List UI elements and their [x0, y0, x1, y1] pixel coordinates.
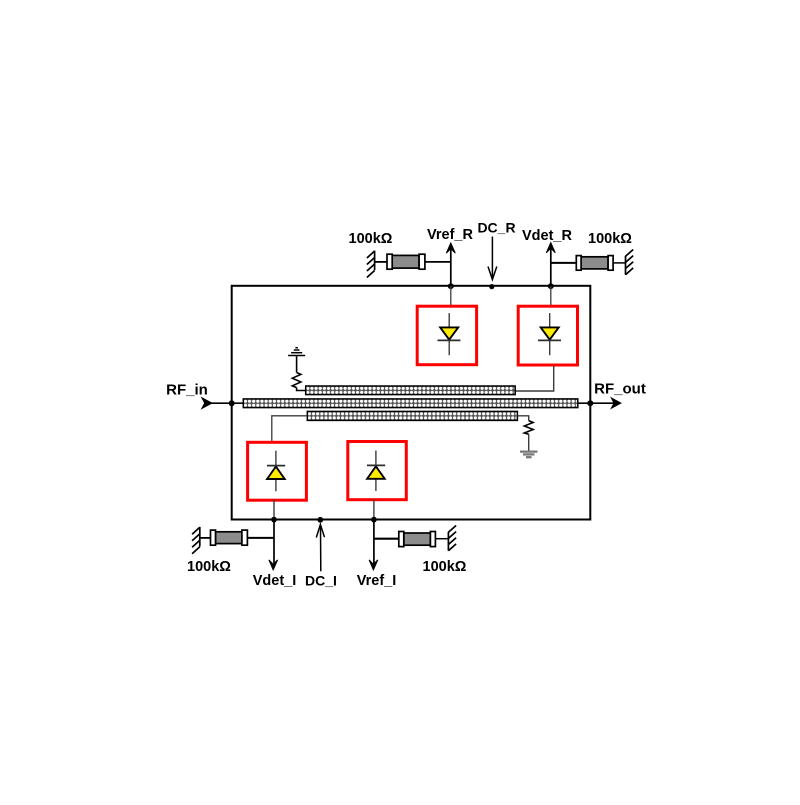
node dot Vdet_I on box bottom [271, 517, 277, 523]
svg-text:Vdet_R: Vdet_R [522, 228, 572, 244]
resistor R1 100kOhm (top-left) [387, 254, 425, 269]
detector box (red) D4 [348, 442, 407, 500]
resistor R4 100kOhm (bottom-right) [399, 532, 436, 547]
wire D2 to coupled line 1 [515, 366, 554, 392]
node dot DC_I on box bottom [317, 517, 323, 523]
ground chassis top-left [367, 251, 375, 278]
ground earth (inverted) above termination R5 [288, 348, 305, 356]
port arrow DC_R (down, open) [488, 267, 497, 280]
wire coupled line 2 to termination R6 [517, 416, 528, 421]
port arrow Vref_I (down) [369, 560, 378, 570]
wire into detector box D1 [450, 286, 452, 307]
node dot Vref_I on box bottom [371, 517, 377, 523]
wire Vref_I to R4 [374, 538, 399, 540]
diode D3 (anode up) [267, 451, 285, 492]
port arrow Vref_R (up) [446, 243, 455, 253]
ground chassis bottom-left [192, 527, 200, 554]
ground earth (gray) below R6 [520, 452, 538, 458]
wire ground to R5 [296, 356, 298, 372]
wire R6 to ground [528, 434, 530, 451]
termination resistor R5 (zigzag) [292, 373, 301, 388]
termination resistor R6 (zigzag) [524, 421, 533, 435]
detector box (red) D3 [248, 442, 307, 500]
svg-text:DC_R: DC_R [477, 220, 515, 236]
ground chassis bottom-right [448, 526, 456, 551]
wire Vdet_R to R2 [551, 262, 577, 264]
device outline box [232, 286, 591, 520]
coupled line 1 (R section) [306, 386, 516, 395]
wire Vref_I vertical [373, 520, 375, 565]
wire DC_I vertical [320, 526, 322, 571]
coupled line 2 (I section) [307, 411, 517, 420]
resistor R3 100kOhm (bottom-left) [211, 530, 248, 545]
wire Vdet_I vertical [273, 520, 275, 565]
wire ground to R1 [375, 261, 387, 263]
svg-text:RF_in: RF_in [166, 382, 208, 399]
ground chassis top-right [626, 250, 634, 275]
wire R5 to coupled line 1 [297, 388, 306, 391]
node dot Vref_R on box top [448, 283, 454, 289]
wire R2 to ground [613, 262, 625, 264]
detector box (red) D2 [518, 306, 577, 365]
svg-text:100kΩ: 100kΩ [187, 559, 231, 575]
node dot Vdet_R on box top [548, 283, 554, 289]
port arrow Vdet_R (up) [546, 243, 555, 253]
svg-text:Vdet_I: Vdet_I [253, 573, 297, 589]
svg-text:100kΩ: 100kΩ [349, 231, 393, 247]
svg-text:Vref_R: Vref_R [427, 227, 473, 243]
diode D1 (anode down) [438, 313, 461, 355]
port arrow DC_I (up, open) [316, 525, 324, 538]
wire DC_R vertical [491, 237, 493, 280]
wire Vref_R vertical [450, 247, 452, 286]
wire D4 to box bottom [373, 500, 375, 520]
wire main line to RF_out [578, 402, 616, 404]
wire R1 to node Vref_R [425, 261, 451, 263]
port arrow Vdet_I (down) [269, 560, 278, 570]
svg-text:Vref_I: Vref_I [357, 573, 397, 589]
wire R3 to Vdet_I [247, 537, 274, 539]
svg-text:DC_I: DC_I [305, 573, 337, 589]
node dot DC_R on box top [489, 284, 494, 289]
wire D3 to box bottom [273, 500, 275, 520]
diode D2 (anode down) [538, 313, 561, 355]
wire R4 to ground [435, 538, 448, 540]
resistor R2 100kOhm (top-right) [576, 256, 613, 271]
wire into detector box D2 [550, 286, 552, 307]
main transmission line [243, 399, 578, 408]
port arrow RF_out (right) [611, 398, 621, 408]
diode D4 (anode up) [367, 451, 385, 492]
port arrow RF_in (right) [202, 398, 212, 409]
wire ground to R3 [200, 537, 211, 539]
wire RF_in to main line [210, 402, 244, 404]
detector box (red) D1 [417, 306, 476, 365]
wire coupled line 2 to detector box D3 [272, 416, 308, 442]
node dot RF_in on box left [229, 400, 235, 406]
wire Vdet_R vertical [550, 247, 552, 286]
svg-text:100kΩ: 100kΩ [423, 559, 467, 575]
svg-text:RF_out: RF_out [594, 381, 646, 398]
svg-text:100kΩ: 100kΩ [588, 231, 632, 247]
node dot RF_out on box right [587, 400, 593, 406]
